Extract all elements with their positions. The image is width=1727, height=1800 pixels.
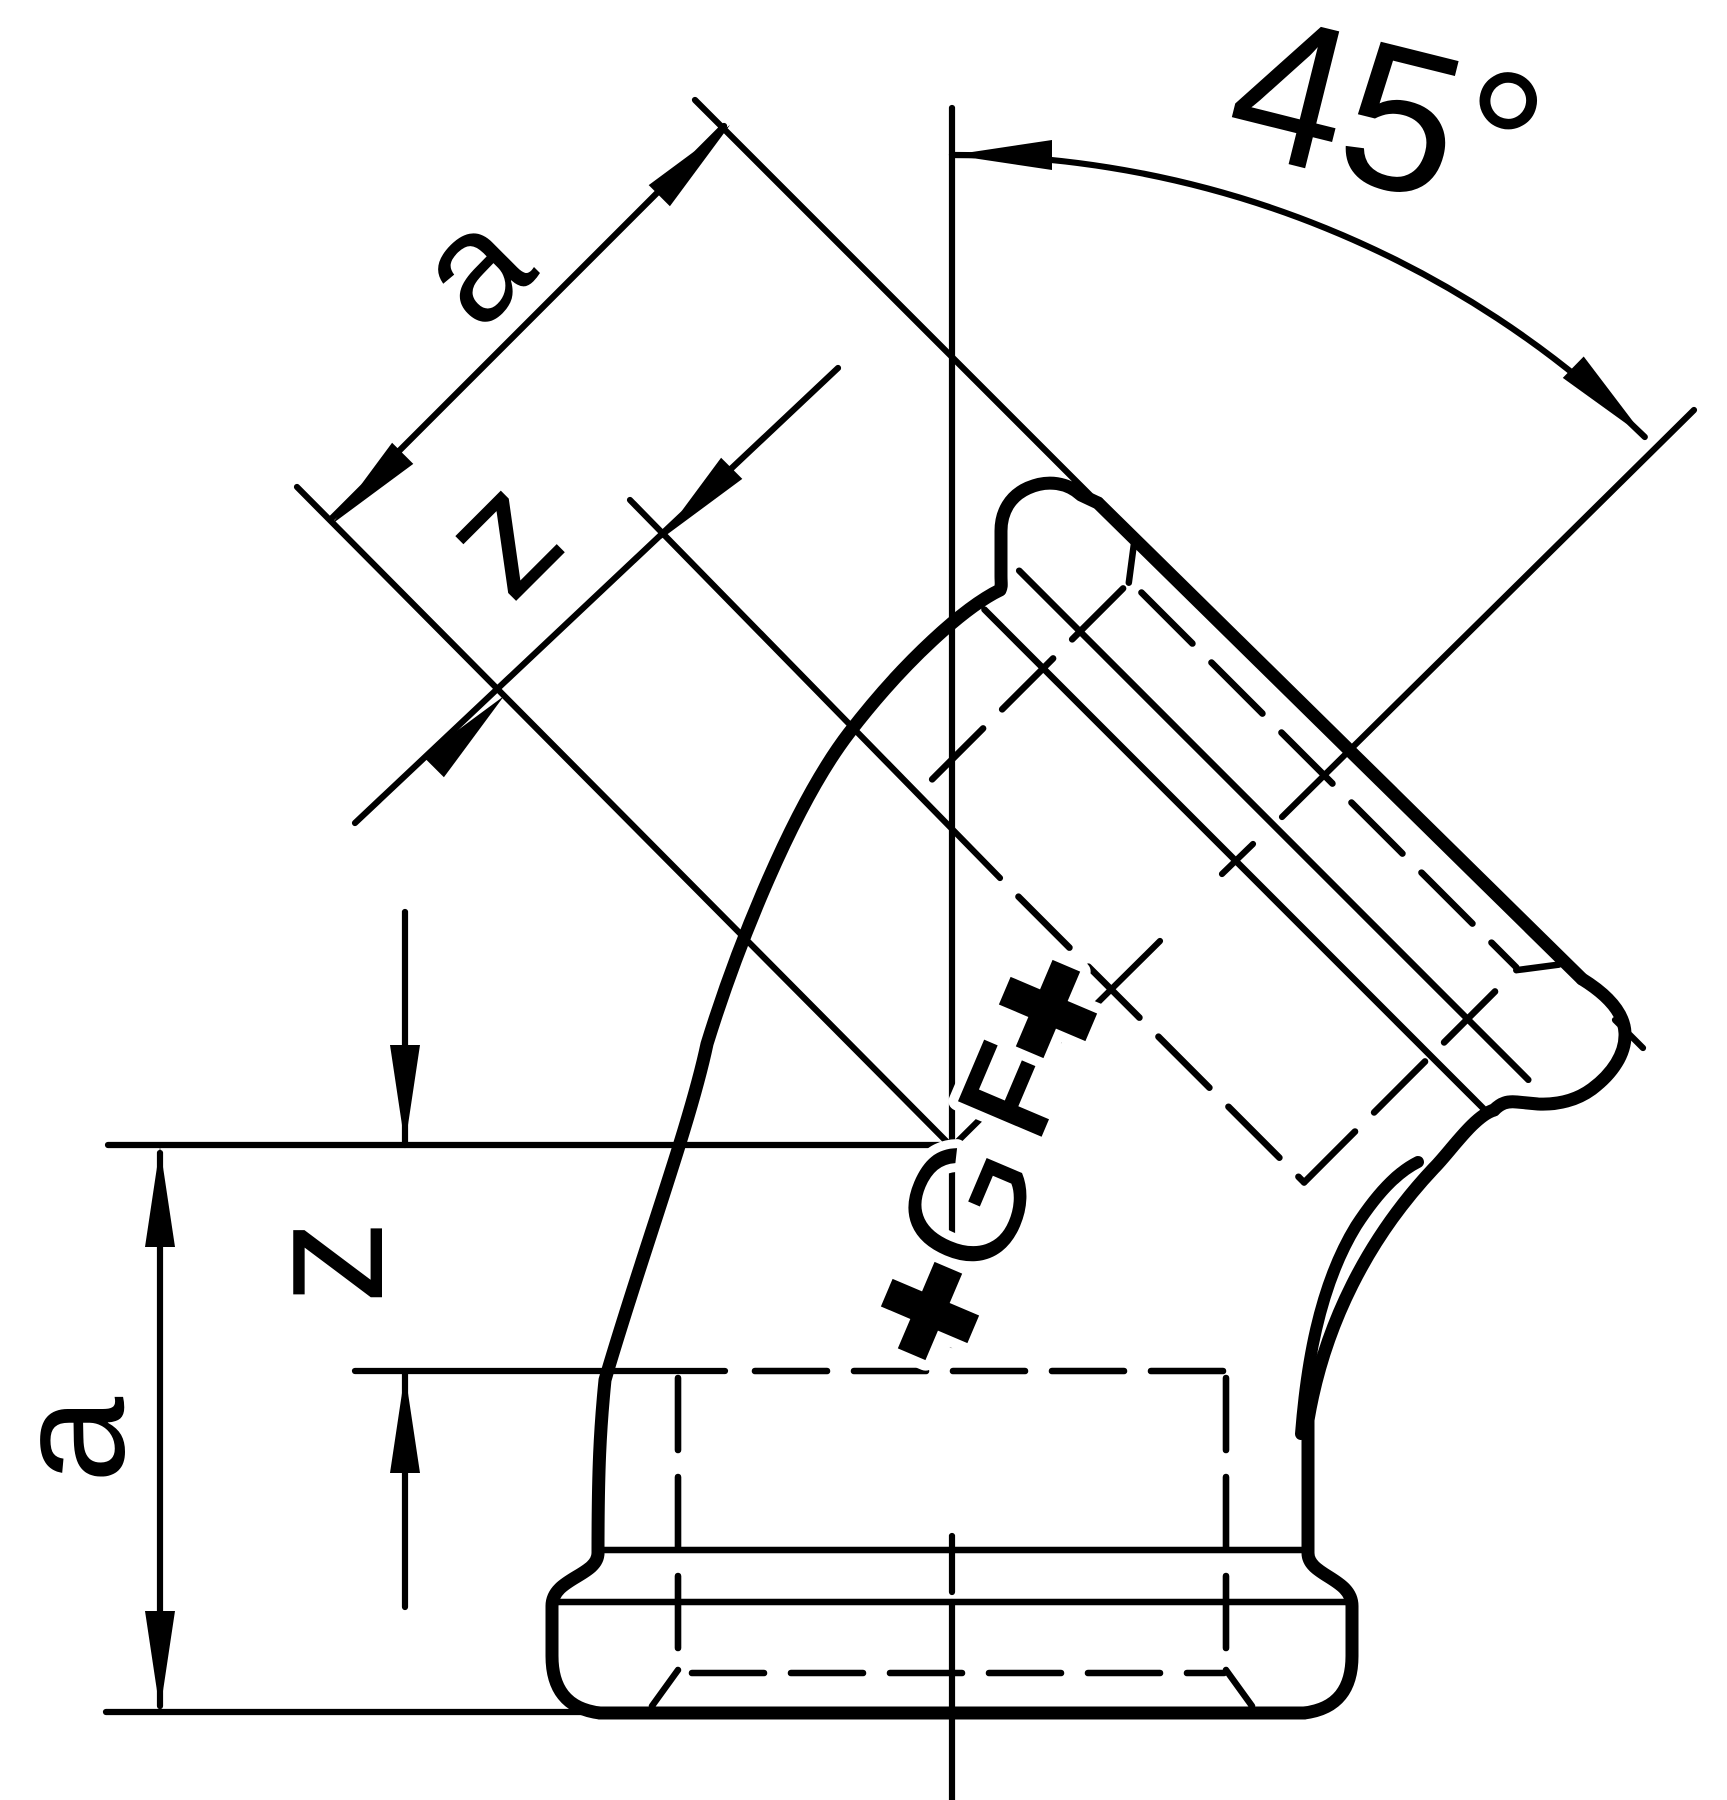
extension line: lower thread end plane xyxy=(355,1368,725,1374)
GF logo: bottom cross xyxy=(868,1249,991,1372)
upper-left bead xyxy=(1000,483,1098,590)
upper mouth chamfer (near) xyxy=(1129,540,1135,582)
lower band line 1 xyxy=(599,1547,1306,1554)
lower face xyxy=(600,1707,1304,1720)
lower band line 2 xyxy=(557,1599,1347,1606)
upper chamfer depth hidden line xyxy=(1142,593,1517,968)
lower-left bead xyxy=(552,1553,600,1713)
GF logo: letter F xyxy=(929,1024,1096,1156)
elbow outer contour: left sweep xyxy=(552,483,1625,1713)
lower-right bead xyxy=(1304,1420,1352,1713)
lower mouth chamfer left xyxy=(652,1670,678,1706)
lower bore hidden line right xyxy=(1223,1378,1230,1668)
upper face xyxy=(1098,503,1582,979)
upper mouth chamfer (far) xyxy=(1516,965,1558,971)
lower thread end hidden line xyxy=(755,1368,1226,1375)
45 degree arc xyxy=(952,155,1645,437)
svg-text:z: z xyxy=(230,1220,418,1304)
upper thread end hidden line xyxy=(1019,897,1305,1183)
dimension line z (upper) xyxy=(355,368,838,823)
extension line: lower face plane xyxy=(106,1709,592,1715)
upper bore hidden line (far) xyxy=(1304,976,1511,1183)
GF logo: letter G xyxy=(859,1112,1075,1299)
dimension line a (upper) xyxy=(332,126,724,518)
vertical centerline xyxy=(949,108,955,1800)
45-degree branch centerline xyxy=(952,410,1694,1147)
upper band line 2 xyxy=(1019,571,1528,1080)
dashed hidden thread lines xyxy=(678,588,1516,1673)
extension line: upper face plane xyxy=(695,100,1100,505)
extension line: upper thread end plane, solid to centerline xyxy=(630,500,1000,878)
lower mouth chamfer right xyxy=(1226,1670,1252,1706)
dimension line z (left) xyxy=(402,912,408,1607)
dimension line a (left) xyxy=(157,1153,163,1706)
lower bore hidden line left xyxy=(675,1378,682,1668)
upper band line 1 xyxy=(985,610,1490,1115)
extension line: horizontal centre plane xyxy=(108,1142,952,1148)
heel outer curve xyxy=(1308,1110,1494,1420)
extension line: centre plane perpendicular to branch axis xyxy=(297,487,952,1147)
GF logo: top cross xyxy=(986,947,1109,1070)
upper-right bead xyxy=(1494,979,1625,1110)
heel crease xyxy=(1301,1162,1418,1434)
upper bore hidden line (near) xyxy=(920,588,1124,792)
lower chamfer depth hidden line xyxy=(692,1670,1224,1677)
svg-text:a: a xyxy=(0,1396,157,1483)
